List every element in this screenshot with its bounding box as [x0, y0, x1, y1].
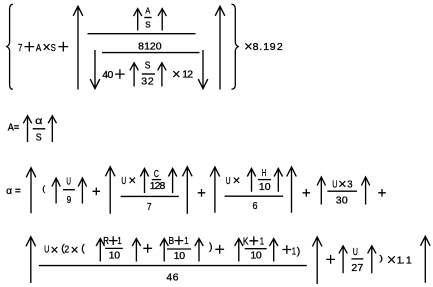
- ceiling arrow right R+1: [132, 239, 140, 262]
- plus between R and B terms: [143, 244, 152, 253]
- fullwidth plus 2: [58, 42, 68, 52]
- ceiling arrow right C/128: [168, 169, 176, 194]
- big ceiling arrow left term3: [210, 167, 220, 213]
- svg-text:(: (: [81, 243, 85, 255]
- fullwidth plus 1: [24, 42, 34, 52]
- svg-text:A: A: [145, 5, 150, 15]
- big ceiling arrow left term2: [105, 167, 115, 214]
- svg-text:U: U: [121, 175, 126, 187]
- svg-text:1: 1: [117, 235, 121, 247]
- times term3: [234, 178, 239, 183]
- svg-text:K: K: [243, 235, 249, 247]
- ceiling arrow right U/27: [368, 246, 376, 273]
- svg-text:8120: 8120: [138, 40, 162, 52]
- times 1 line4: [52, 247, 58, 253]
- ceiling arrow left R+1: [96, 239, 104, 262]
- svg-text:128: 128: [150, 180, 166, 192]
- svg-text:U: U: [66, 176, 71, 188]
- svg-text:10: 10: [174, 250, 186, 262]
- plus before K term: [215, 245, 224, 254]
- fraction bar U/9: [63, 189, 75, 191]
- ceiling arrow right B+1: [195, 239, 203, 262]
- big ceiling arrow left line1: [73, 6, 83, 89]
- fullwidth plus in 40+: [115, 69, 125, 79]
- svg-text:A: A: [36, 42, 41, 54]
- plus after line4 fraction: [326, 255, 335, 264]
- ceiling arrow left C/128: [140, 169, 148, 194]
- ceiling arrow left U/27: [339, 246, 347, 273]
- times sign 1: [44, 44, 50, 50]
- svg-text:1.1: 1.1: [397, 255, 412, 267]
- plus in R+1: [109, 236, 118, 245]
- mini fraction bar S/32: [142, 73, 155, 75]
- ceiling arrow left U/9: [52, 178, 60, 204]
- main fraction bar upper line1: [88, 33, 196, 35]
- main fraction bar term3: [225, 195, 284, 197]
- svg-text:): ): [297, 246, 301, 258]
- small ceiling arrow right of S/32: [158, 63, 166, 87]
- svg-text:10: 10: [109, 249, 121, 261]
- svg-text:6: 6: [253, 200, 258, 212]
- times before 1.1: [388, 256, 395, 263]
- big ceiling arrow left line4 fraction: [26, 237, 36, 283]
- svg-text:1: 1: [260, 235, 264, 247]
- svg-text:1: 1: [184, 235, 188, 247]
- svg-text:7: 7: [147, 201, 152, 213]
- mini fraction bar H/10: [258, 179, 271, 181]
- ceiling arrow right H/10: [274, 169, 282, 192]
- svg-text:S: S: [145, 60, 151, 72]
- times 2 line4: [72, 247, 78, 253]
- svg-text:40: 40: [102, 69, 113, 81]
- plus after term4: [378, 189, 386, 197]
- ceiling arrow right U/9: [78, 178, 86, 204]
- ceiling arrow left H/10: [247, 169, 255, 192]
- fraction bar lower line1: [102, 52, 200, 54]
- svg-text:A=: A=: [8, 122, 19, 134]
- plus after term2: [198, 189, 206, 197]
- plus in K+1: [249, 236, 258, 245]
- times term4: [340, 181, 346, 187]
- big ceiling arrow right line4 fraction: [312, 237, 322, 284]
- final big ceiling arrow: [421, 236, 431, 282]
- small ceiling arrow left of A/S: [134, 9, 142, 31]
- svg-text:U: U: [332, 179, 337, 191]
- mini fraction bar alpha/S: [33, 128, 46, 130]
- svg-text:C: C: [154, 168, 159, 180]
- small ceiling arrow right of A/S: [158, 9, 166, 31]
- svg-text:): ): [209, 241, 213, 253]
- ceiling arrow left K+1: [235, 239, 243, 262]
- right curly brace: [232, 4, 239, 89]
- svg-text:U: U: [226, 175, 231, 187]
- svg-text:2: 2: [64, 244, 69, 256]
- svg-text:R: R: [103, 235, 109, 247]
- svg-text:30: 30: [336, 194, 348, 206]
- ceiling arrow right term4: [361, 177, 369, 205]
- fraction bar K+1/10: [245, 248, 267, 250]
- svg-text:S: S: [36, 132, 42, 144]
- svg-text:U: U: [353, 246, 358, 258]
- big ceiling arrow right term2: [183, 167, 193, 214]
- small ceiling arrow left of S/32: [130, 63, 138, 87]
- times term2: [130, 178, 135, 183]
- ceiling arrow right K+1: [270, 239, 278, 262]
- big ceiling arrow right term3: [287, 167, 297, 213]
- svg-text:10: 10: [250, 250, 262, 262]
- svg-text:B: B: [169, 235, 175, 247]
- svg-text:(: (: [42, 183, 45, 193]
- svg-text:46: 46: [166, 272, 178, 284]
- fraction bar term4: [327, 190, 357, 192]
- mini fraction bar A/S: [144, 17, 151, 19]
- main fraction bar term2: [121, 195, 179, 197]
- big ceiling arrow opening line3: [26, 168, 36, 214]
- svg-text:): ): [379, 253, 383, 263]
- left curly brace: [7, 4, 13, 89]
- ceiling arrow right of alpha/S: [48, 116, 56, 142]
- big ceiling arrow right line1: [215, 6, 225, 89]
- fraction bar U/27: [352, 258, 364, 260]
- plus after term3: [303, 189, 311, 197]
- svg-text:U: U: [44, 244, 49, 256]
- times sign before 8.192: [245, 43, 251, 49]
- svg-text:3: 3: [347, 179, 352, 191]
- svg-text:10: 10: [259, 181, 271, 193]
- svg-text:7: 7: [18, 42, 23, 54]
- plus before final 1: [282, 245, 291, 254]
- fraction bar B+1/10: [167, 248, 191, 250]
- ceiling arrow left of alpha/S: [23, 116, 31, 142]
- svg-text:9: 9: [67, 194, 72, 206]
- ceiling arrow left term4: [317, 177, 325, 205]
- svg-text:27: 27: [351, 262, 363, 274]
- ceiling arrow left B+1: [160, 239, 168, 262]
- floor arrow left: [90, 50, 100, 89]
- mini fraction bar C/128: [152, 179, 161, 181]
- floor arrow right: [198, 50, 208, 89]
- main fraction bar line4: [39, 265, 307, 267]
- svg-text:8.192: 8.192: [253, 41, 283, 53]
- svg-text:S: S: [51, 42, 56, 54]
- plus in B+1: [175, 236, 184, 245]
- times sign before 12: [173, 71, 179, 77]
- svg-text:α: α: [35, 115, 42, 127]
- svg-text:S: S: [145, 19, 151, 29]
- svg-text:1: 1: [292, 246, 296, 258]
- svg-text:H: H: [262, 167, 267, 179]
- svg-text:32: 32: [141, 76, 154, 88]
- plus after term1: [93, 188, 101, 196]
- svg-text:α =: α =: [6, 185, 21, 197]
- svg-text:12: 12: [182, 69, 193, 81]
- fraction bar R+1/10: [105, 247, 123, 249]
